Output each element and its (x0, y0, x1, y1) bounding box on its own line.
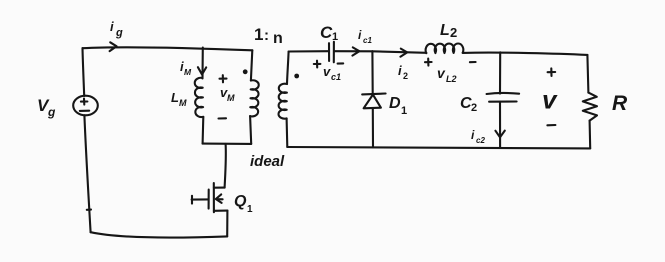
current arrow ic1 (352, 47, 359, 55)
wire source lead (226, 211, 228, 237)
wire secondary bottom lead (286, 118, 289, 147)
label R (612, 92, 628, 115)
svg-text:v: v (542, 85, 558, 115)
diode D1 (362, 94, 385, 109)
wire right vertical top (587, 55, 588, 93)
transformer secondary winding (279, 84, 287, 119)
svg-text:1: 1 (254, 25, 263, 44)
label C1 (320, 23, 338, 43)
transistor Q1 (192, 183, 228, 212)
wire bottom left rail (91, 232, 228, 237)
wire primary top lead (251, 50, 252, 80)
wire right vertical bottom (589, 121, 592, 149)
label ic2 (471, 128, 485, 145)
svg-text:v: v (323, 64, 331, 79)
wire secondary top lead (287, 52, 289, 85)
label iM (180, 59, 192, 77)
svg-text:ideal: ideal (250, 153, 285, 170)
label L2 (440, 22, 457, 40)
polarity vc1 (314, 61, 343, 68)
svg-text:M: M (227, 93, 235, 103)
current arrow ig (110, 42, 117, 51)
label i2 (398, 63, 408, 81)
label C2 (460, 95, 477, 114)
svg-text::: : (264, 27, 269, 44)
stray tick (87, 209, 91, 211)
svg-text:c2: c2 (476, 136, 485, 145)
svg-text:L: L (440, 22, 450, 39)
wire inner box bottom (203, 143, 252, 145)
inductor LM (195, 78, 204, 117)
wire C2 top lead (499, 52, 501, 93)
wire C2 bottom lead (499, 102, 501, 148)
current arrow ic2 (495, 131, 504, 138)
svg-text:Q: Q (234, 193, 247, 210)
resistor R (583, 93, 597, 121)
label 1:n (254, 25, 283, 47)
label ic1 (358, 28, 372, 45)
capacitor C1 (329, 42, 334, 63)
polarity vL2 (425, 59, 476, 66)
capacitor C2 (487, 93, 519, 102)
wire drain stub (225, 144, 226, 188)
svg-text:2: 2 (403, 71, 408, 81)
wire secondary to C1 (289, 50, 329, 52)
label LM (171, 90, 187, 108)
svg-text:i: i (110, 19, 114, 34)
current arrow iM (198, 67, 206, 74)
svg-text:i: i (398, 63, 402, 78)
svg-text:D: D (389, 95, 401, 112)
wire C1 to diode node (334, 50, 372, 52)
transformer primary winding (250, 80, 259, 116)
svg-text:R: R (612, 92, 628, 115)
inductor L2 (426, 44, 464, 54)
svg-text:g: g (115, 27, 123, 39)
current arrow i2 (400, 49, 407, 57)
secondary dot (294, 74, 299, 79)
label Vg (37, 96, 56, 119)
svg-text:L2: L2 (446, 74, 457, 84)
svg-text:L: L (171, 90, 179, 105)
diode D1 lead bottom (372, 108, 374, 147)
wire primary bottom lead (250, 116, 251, 144)
label Q1 (234, 193, 253, 215)
primary dot (243, 69, 248, 74)
svg-text:2: 2 (450, 25, 457, 40)
polarity vM (219, 75, 227, 118)
svg-text:g: g (47, 105, 56, 119)
wire Vg top lead (83, 48, 85, 96)
svg-text:1: 1 (401, 105, 407, 117)
svg-text:v: v (437, 65, 446, 81)
wire L2 to right corner (463, 53, 588, 55)
polarity output v (547, 68, 555, 125)
diode D1 lead top (371, 51, 373, 94)
svg-text:c1: c1 (363, 36, 372, 45)
svg-text:M: M (179, 98, 187, 108)
svg-text:1: 1 (332, 31, 338, 43)
wire Vg bottom lead (84, 115, 90, 232)
wire top left rail (83, 47, 253, 50)
wire bottom right rail (287, 147, 590, 148)
wire LM bottom lead (202, 117, 205, 144)
svg-text:1: 1 (247, 204, 253, 215)
svg-text:2: 2 (471, 102, 477, 114)
voltage source Vg (73, 96, 98, 116)
wire node to L2 (372, 51, 426, 53)
label D1 (389, 95, 407, 117)
wire LM top lead (201, 48, 203, 79)
label ideal (250, 153, 285, 170)
svg-text:n: n (273, 30, 283, 47)
svg-text:c1: c1 (331, 72, 341, 82)
label ig (110, 19, 123, 39)
svg-text:M: M (184, 67, 192, 77)
